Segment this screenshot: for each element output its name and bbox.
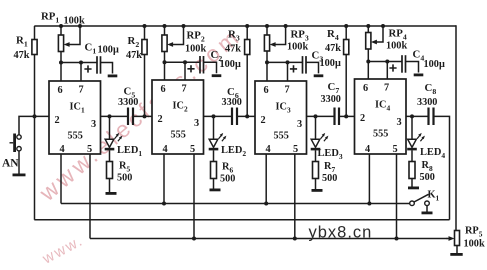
- svg-text:6: 6: [161, 84, 166, 95]
- wire pin7 drop stage3: [287, 62, 289, 81]
- svg-text:2: 2: [360, 113, 365, 124]
- svg-text:100μ: 100μ: [424, 59, 445, 70]
- svg-text:555: 555: [274, 131, 289, 142]
- ground R7: [312, 189, 323, 192]
- wire pin6 drop stage2: [164, 62, 166, 80]
- svg-text:100k: 100k: [185, 44, 206, 55]
- resistor R4 47k: [344, 24, 349, 116]
- svg-text:2: 2: [55, 115, 60, 126]
- svg-text:7: 7: [79, 84, 84, 95]
- capacitor C8 3300 coupling: [429, 108, 434, 126]
- capacitor C7 3300 coupling: [335, 108, 340, 126]
- LED2: [209, 116, 227, 161]
- wire pin5 IC4 to control rail: [395, 154, 399, 241]
- svg-text:3: 3: [297, 119, 302, 130]
- wire pin5 IC1 to control rail: [89, 154, 91, 239]
- capacitor C2 100u electrolytic: [187, 56, 221, 77]
- svg-text:3: 3: [397, 117, 402, 128]
- svg-text:4: 4: [60, 144, 65, 155]
- svg-text:100k: 100k: [287, 42, 308, 53]
- wire control rail pin5 bus: [90, 238, 448, 240]
- resistor R8 500: [408, 162, 419, 190]
- ground C2: [212, 74, 222, 77]
- wire reset rail pin4 bus: [61, 203, 410, 205]
- svg-text:100μ: 100μ: [220, 59, 241, 70]
- svg-text:5: 5: [87, 144, 92, 155]
- svg-text:4: 4: [365, 144, 370, 155]
- wire pin7 drop stage1: [80, 63, 82, 82]
- svg-text:47k: 47k: [225, 44, 241, 55]
- potentiometer RP4 100k: [366, 24, 385, 62]
- resistor R5 500: [106, 162, 117, 195]
- svg-text:555: 555: [373, 129, 388, 140]
- ground R8: [408, 187, 419, 190]
- wire pin4 IC3 to reset rail: [264, 154, 268, 206]
- wire pin4 IC2 to reset rail: [162, 154, 166, 206]
- svg-text:500: 500: [117, 173, 132, 184]
- wire pin3 output stage1: [101, 114, 129, 118]
- svg-text:3300: 3300: [222, 97, 242, 108]
- svg-text:500: 500: [322, 173, 337, 184]
- svg-text:100k: 100k: [64, 16, 85, 27]
- wire pin6 drop stage3: [266, 62, 268, 81]
- svg-text:47k: 47k: [325, 43, 341, 54]
- resistor R1 47k: [32, 26, 37, 220]
- svg-text:7: 7: [384, 82, 389, 93]
- ground AN: [13, 174, 26, 177]
- wire VCC top rail: [34, 25, 456, 27]
- wire C5 to next stage: [133, 114, 152, 118]
- wire pin4 IC1 to reset rail: [60, 154, 62, 204]
- capacitor C5 3300 coupling: [128, 108, 133, 126]
- capacitor C6 3300 coupling: [232, 108, 237, 126]
- pushbutton AN: [10, 134, 26, 177]
- svg-text:2: 2: [158, 114, 163, 125]
- svg-text:6: 6: [58, 85, 63, 96]
- resistor R2 47k: [142, 24, 147, 116]
- svg-text:6: 6: [264, 85, 269, 96]
- svg-text:4: 4: [163, 144, 168, 155]
- resistor R6 500: [210, 162, 221, 192]
- potentiometer RP5 100k: [447, 231, 463, 256]
- op-amp IC3 555 timer box: [255, 81, 307, 154]
- wire pin5 IC3 to control rail: [293, 154, 297, 241]
- ground RP5: [450, 253, 462, 256]
- svg-text:500: 500: [420, 172, 435, 183]
- wire pin7 drop stage2: [184, 62, 186, 80]
- potentiometer RP1 100k: [58, 24, 82, 63]
- svg-text:3300: 3300: [417, 97, 437, 108]
- resistor R3 47k: [245, 24, 250, 116]
- wire pin6 drop stage1: [60, 63, 62, 82]
- svg-text:2: 2: [261, 115, 266, 126]
- wire pin2 IC1 to button: [19, 114, 49, 134]
- wire right border VCC drop: [455, 25, 457, 230]
- switch K1: [410, 194, 433, 214]
- svg-text:3300: 3300: [321, 94, 341, 105]
- wire node pins6-7 stage2: [163, 60, 201, 80]
- svg-text:6: 6: [363, 83, 368, 94]
- ground R5: [106, 192, 117, 195]
- wire pin6 drop stage4: [367, 62, 369, 80]
- capacitor C1 100u electrolytic: [84, 56, 117, 77]
- wire C6 to next stage: [237, 114, 255, 118]
- wire pin5 IC2 to control rail: [192, 154, 196, 241]
- svg-text:5: 5: [190, 144, 195, 155]
- svg-text:100μ: 100μ: [320, 58, 341, 69]
- LED3: [311, 116, 329, 161]
- op-amp IC4 555 timer box: [355, 79, 407, 154]
- capacitor C3 100u electrolytic: [290, 56, 323, 77]
- wire pin4 IC4 to reset rail: [367, 154, 371, 206]
- svg-text:5: 5: [293, 144, 298, 155]
- LED4: [407, 116, 425, 161]
- LED1: [105, 116, 123, 161]
- svg-text:AN: AN: [2, 158, 19, 170]
- svg-text:5: 5: [393, 144, 398, 155]
- svg-text:500: 500: [220, 174, 235, 185]
- ground C4: [414, 74, 424, 77]
- wire pin3 output stage3: [307, 114, 335, 118]
- wire node pins6-7 stage4: [366, 60, 402, 80]
- op-amp IC1 555 timer box: [49, 81, 101, 154]
- ground K1: [422, 212, 433, 215]
- capacitor C4 100u electrolytic: [389, 55, 423, 76]
- svg-text:100k: 100k: [386, 41, 407, 52]
- watermark www.elecfans.com: [34, 22, 246, 268]
- svg-text:7: 7: [285, 84, 290, 95]
- svg-text:3300: 3300: [118, 97, 138, 108]
- wire C7 to next stage: [339, 114, 355, 118]
- ground C3: [314, 74, 324, 77]
- svg-text:47k: 47k: [126, 50, 142, 61]
- svg-text:555: 555: [171, 130, 186, 141]
- resistor R7 500: [312, 162, 323, 192]
- op-amp IC2 555 timer box: [152, 80, 204, 154]
- svg-text:4: 4: [266, 144, 271, 155]
- wire pin7 drop stage4: [386, 62, 388, 80]
- wire trigger feedback rail: [34, 219, 449, 221]
- ground R6: [210, 189, 221, 192]
- wire pin3 output stage4: [406, 114, 429, 118]
- wire C8 to next stage: [434, 116, 450, 219]
- svg-text:100μ: 100μ: [98, 45, 119, 56]
- potentiometer RP3 100k: [264, 24, 287, 62]
- svg-text:3: 3: [91, 119, 96, 130]
- svg-text:100k: 100k: [464, 239, 485, 250]
- svg-text:7: 7: [182, 83, 187, 94]
- ground C1: [108, 75, 118, 78]
- svg-text:47k: 47k: [14, 50, 30, 61]
- wire node pins6-7 stage1: [59, 61, 97, 82]
- svg-text:555: 555: [68, 131, 83, 142]
- potentiometer RP2 100k: [162, 24, 186, 62]
- svg-text:ybx8.cn: ybx8.cn: [309, 223, 373, 241]
- wire pin3 output stage2: [204, 114, 233, 118]
- wire node pins6-7 stage3: [265, 60, 303, 81]
- svg-text:3: 3: [194, 118, 199, 129]
